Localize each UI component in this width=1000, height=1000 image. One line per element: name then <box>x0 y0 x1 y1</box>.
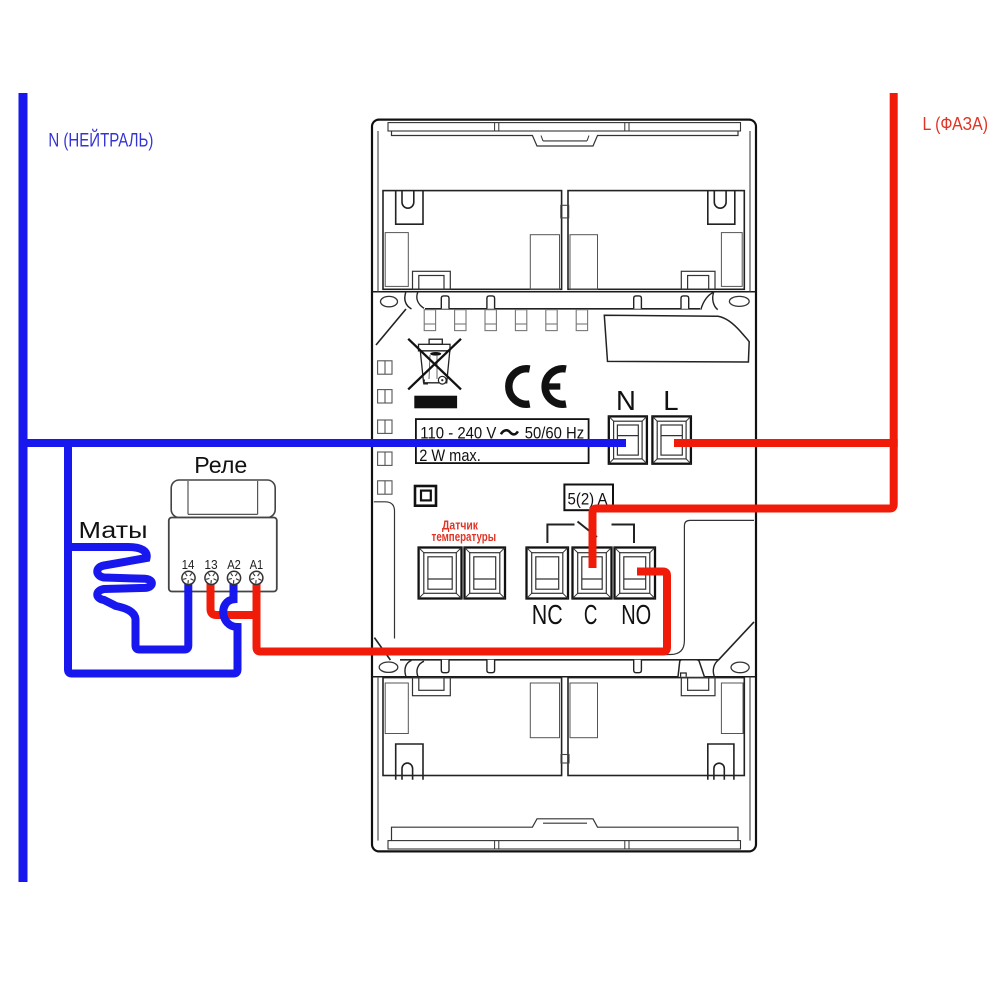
svg-text:L (ФАЗА): L (ФАЗА) <box>923 114 989 134</box>
svg-text:NO: NO <box>621 598 651 630</box>
svg-text:Маты: Маты <box>79 517 148 543</box>
svg-text:A1: A1 <box>250 557 264 572</box>
svg-text:2 W max.: 2 W max. <box>419 446 481 465</box>
svg-text:L: L <box>663 385 678 416</box>
svg-text:N: N <box>616 385 636 416</box>
svg-text:13: 13 <box>204 557 217 572</box>
svg-text:14: 14 <box>182 557 195 572</box>
svg-text:A2: A2 <box>227 557 241 572</box>
svg-text:C: C <box>584 598 598 630</box>
svg-text:температуры: температуры <box>432 530 497 544</box>
svg-text:Реле: Реле <box>194 452 247 478</box>
svg-text:NC: NC <box>532 598 563 630</box>
svg-text:N (НЕЙТРАЛЬ): N (НЕЙТРАЛЬ) <box>48 130 153 152</box>
